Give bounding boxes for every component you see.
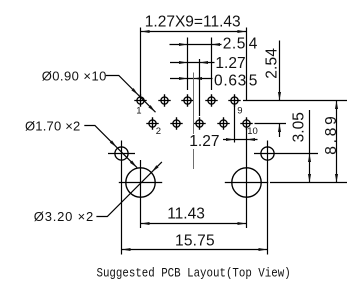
pad pin 1 [134, 94, 146, 106]
svg-text:10: 10 [247, 126, 258, 137]
arrowhead leader D0.90 end [148, 105, 155, 112]
hole D3.20 right [225, 168, 268, 197]
dimension line 15.75 [122, 249, 268, 251]
extension line pin row1 to the right [243, 100, 347, 102]
leader line D0.90 [106, 76, 156, 113]
dimension line 3.05 [309, 110, 311, 183]
arrowhead leader D1.70 at hole [110, 140, 117, 147]
pad pin 10 [240, 117, 252, 129]
pad pin 3 [158, 94, 170, 106]
svg-text:11.43: 11.43 [167, 205, 205, 222]
hole D1.70 left [108, 147, 135, 160]
arrowhead 0.635 left [179, 77, 188, 80]
arrowhead 15.75 right [259, 248, 268, 251]
arrowhead 1.27 top left [179, 61, 188, 64]
extension line D3.20-level to the right [270, 182, 347, 184]
pad pin 4 [170, 117, 182, 129]
dimension line 1.27X9=11.43 [141, 31, 247, 33]
arrowhead 8.89 top [335, 101, 338, 110]
arrowhead 11.43 left [141, 222, 150, 225]
svg-text:3.05: 3.05 [291, 112, 308, 142]
extension line left D1.70 downward [121, 141, 123, 255]
arrowhead 1.27 bottom right [247, 138, 256, 141]
arrowhead leader D0.90 at pad 1 [131, 88, 138, 95]
extension line pin row2 to the right [255, 123, 287, 125]
arrowhead 2.54 right top [278, 92, 281, 101]
arrowhead 11.43 right [238, 222, 247, 225]
arrowhead 3.05 bottom [308, 174, 311, 183]
svg-text:5: 5 [249, 73, 258, 90]
dimension line 2.54 right side vertical [279, 41, 281, 138]
extension line pin10 downward [246, 127, 248, 228]
arrowhead 2.54 top right [212, 43, 221, 46]
svg-text:1.27: 1.27 [215, 55, 245, 72]
extension line pin10 column above [246, 28, 248, 102]
pad pin 9 [228, 94, 240, 106]
pad pin 8 [217, 117, 229, 129]
leader line D1.70 [84, 126, 137, 168]
extension line pin9 downward [234, 105, 236, 143]
extension line pin6 column [199, 59, 201, 116]
hole D1.70 right [261, 147, 274, 160]
extension line right D1.70 downward [267, 141, 269, 255]
svg-text:2.54: 2.54 [263, 48, 280, 79]
center line of pin field [193, 73, 195, 170]
svg-text:Ø1.70 ×2: Ø1.70 ×2 [25, 118, 80, 133]
arrowhead 15.75 left [122, 248, 131, 251]
extension line pin1 column above [140, 28, 142, 96]
svg-text:Ø0.90 ×10: Ø0.90 ×10 [42, 69, 107, 84]
dimension line 1.27 top [170, 62, 215, 64]
arrowhead 3.05 top [308, 154, 311, 163]
svg-text:1.27: 1.27 [189, 133, 219, 150]
svg-text:Ø3.20 ×2: Ø3.20 ×2 [34, 209, 94, 224]
svg-text:2.5: 2.5 [223, 35, 246, 52]
pad pin 5 [181, 94, 193, 106]
leader line D3.20 [96, 162, 161, 217]
svg-text:1: 1 [136, 106, 141, 117]
arrowhead 8.89 bottom [335, 174, 338, 183]
extension line left D3.20 downward [140, 160, 142, 228]
svg-text:0.63: 0.63 [214, 73, 247, 90]
dimension line 1.27 bottom [223, 139, 258, 141]
arrowhead leader D3.20 [152, 165, 159, 172]
pad pin 7 [205, 94, 217, 106]
extension line pin5 column [187, 38, 189, 91]
dimension line 8.89 [336, 101, 338, 183]
svg-text:9: 9 [237, 106, 242, 117]
arrowhead leader D1.70 end [130, 160, 137, 167]
pad pin 6 [193, 117, 205, 129]
dimension line 2.54 top [170, 44, 222, 46]
svg-text:4: 4 [249, 35, 258, 52]
extension line D1.70-level to the right [254, 153, 318, 155]
hole D3.20 left [119, 168, 162, 197]
dimension line 11.43 [141, 223, 247, 225]
arrowhead 1.27X9=11.43 right [237, 30, 246, 33]
arrowhead 1.27X9=11.43 left [141, 30, 150, 33]
svg-text:Suggested PCB Layout(Top View): Suggested PCB Layout(Top View) [97, 266, 291, 281]
pad pin 2 [146, 117, 158, 129]
svg-text:15.75: 15.75 [175, 232, 215, 249]
svg-text:8.89: 8.89 [323, 113, 340, 154]
svg-text:2: 2 [156, 126, 161, 137]
dimension line 0.635 [170, 78, 213, 80]
arrowhead 2.54 right bottom [278, 124, 281, 133]
extension line pin7 column [211, 38, 213, 91]
svg-text:1.27X9=11.43: 1.27X9=11.43 [145, 13, 241, 30]
arrowhead 0.635 right [194, 77, 203, 80]
arrowhead 1.27 bottom left [226, 138, 235, 141]
arrowhead 1.27 top right [200, 61, 209, 64]
arrowhead 2.54 top left [179, 43, 188, 46]
